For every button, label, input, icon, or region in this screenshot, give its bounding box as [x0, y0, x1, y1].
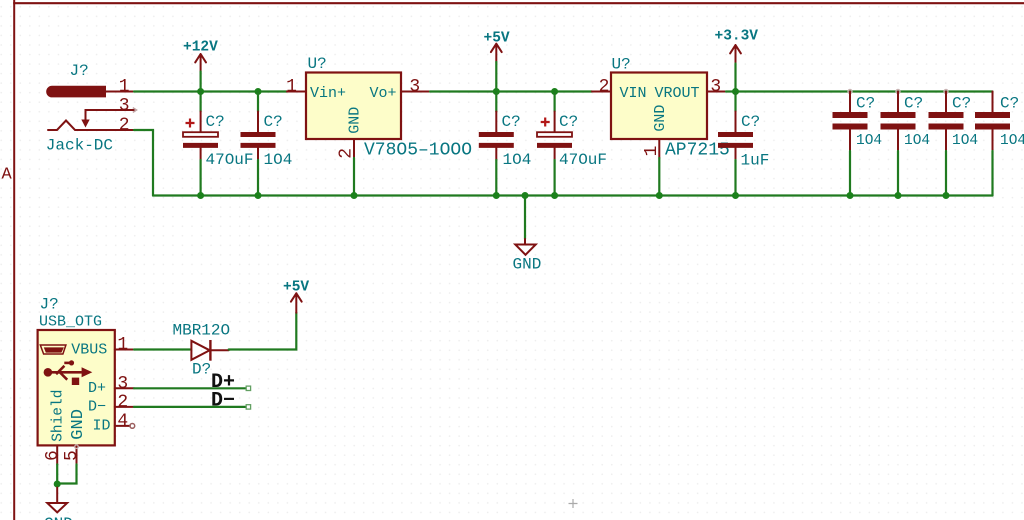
- svg-text:V78O5–1OOO: V78O5–1OOO: [364, 141, 472, 161]
- wire C4 to rail: [553, 160, 555, 196]
- svg-text:1O4: 1O4: [856, 133, 882, 149]
- power symbol +3.3V: [715, 29, 759, 64]
- svg-text:C?: C?: [1000, 95, 1019, 113]
- wire shield pin to junction: [56, 464, 58, 484]
- junction +5V node: [493, 88, 500, 95]
- svg-text:1: 1: [642, 146, 662, 157]
- svg-text:J?: J?: [40, 296, 59, 314]
- wire C7 to rail: [897, 151, 899, 196]
- junction U1 pin2 rail: [351, 192, 358, 199]
- J2 pin 4 end circle: [130, 424, 135, 429]
- power symbol +5V bottom: [283, 279, 309, 312]
- connector J1 Jack-DC barrel: [46, 86, 106, 98]
- svg-text:VBUS: VBUS: [71, 342, 107, 359]
- wire +12V to node: [200, 72, 202, 92]
- U1 pin 3: [401, 91, 430, 93]
- sheet center cross marker: [569, 499, 578, 508]
- J2 usb receptacle icon: [40, 345, 66, 354]
- svg-text:GND: GND: [652, 105, 669, 132]
- junction C1 rail: [197, 192, 204, 199]
- svg-text:D−: D−: [211, 390, 235, 413]
- J2 pin 1 VBUS: [115, 349, 134, 351]
- junction C2 rail: [255, 192, 262, 199]
- svg-text:1O4: 1O4: [264, 151, 293, 169]
- wire diode to +5V corner: [229, 313, 297, 350]
- junction C2 node: [255, 88, 262, 95]
- J2 usb trident icon: [44, 360, 93, 385]
- svg-text:C?: C?: [904, 95, 923, 113]
- capacitor C4 470uF polarized: [537, 112, 572, 161]
- svg-text:3: 3: [710, 77, 721, 97]
- junction C3 rail: [493, 192, 500, 199]
- svg-text:6: 6: [43, 450, 63, 461]
- J2 pin 5 GND: [76, 445, 78, 464]
- svg-text:GND: GND: [513, 255, 542, 273]
- D+ wire end square: [246, 386, 250, 390]
- svg-text:3: 3: [117, 374, 128, 394]
- svg-text:1: 1: [286, 77, 297, 97]
- regulator U1 body: [306, 73, 401, 140]
- svg-text:+3.3V: +3.3V: [715, 29, 759, 45]
- svg-text:3: 3: [119, 96, 130, 116]
- svg-text:Vin+: Vin+: [310, 85, 346, 102]
- power symbol +5V: [484, 31, 510, 63]
- capacitor C9 104: [975, 92, 1010, 152]
- svg-text:1O4: 1O4: [904, 133, 930, 149]
- wire D+: [134, 387, 247, 389]
- capacitor C8 104: [929, 90, 964, 152]
- svg-text:VIN: VIN: [620, 85, 647, 102]
- capacitor C3 104: [479, 112, 514, 161]
- wire jack pin2 to ground rail: [134, 130, 153, 196]
- svg-text:5: 5: [62, 450, 82, 461]
- ground symbol mid: [515, 239, 535, 255]
- TOP-CIRCUIT: [46, 29, 1024, 274]
- wire node down to C4: [553, 92, 555, 112]
- junction C8 rail: [943, 192, 950, 199]
- svg-text:47OuF: 47OuF: [206, 151, 254, 169]
- J1 pin 1: [106, 91, 134, 93]
- J2 pin 2: [115, 406, 134, 408]
- junction C7 rail: [895, 192, 902, 199]
- junction C6 rail: [847, 192, 854, 199]
- junction +3.3V node: [732, 88, 739, 95]
- U1 pin 1: [287, 91, 306, 93]
- wire D-: [134, 406, 247, 408]
- J1 pin 3 end circle: [133, 108, 137, 113]
- capacitor C5 1uF: [718, 112, 753, 161]
- svg-text:GND: GND: [347, 107, 364, 134]
- wire node down to C1: [200, 92, 202, 112]
- wire GND stem: [524, 196, 526, 240]
- svg-text:GND: GND: [69, 409, 88, 440]
- svg-text:D?: D?: [192, 361, 211, 379]
- wire C9 to rail: [991, 151, 993, 196]
- svg-text:U?: U?: [308, 55, 327, 73]
- wire C6 to rail: [849, 151, 851, 196]
- wire U1 pin2 to rail: [353, 158, 355, 196]
- svg-text:2: 2: [119, 116, 130, 136]
- svg-text:4: 4: [117, 411, 128, 431]
- svg-text:MBR12O: MBR12O: [173, 322, 231, 340]
- svg-text:Shield: Shield: [51, 390, 67, 442]
- wire C8 to rail: [945, 151, 947, 196]
- junction GND stem rail: [522, 192, 529, 199]
- J2 pin 5 end circle: [75, 445, 79, 449]
- wire jack pin1 to U1: [134, 90, 287, 92]
- wire C3 to rail: [495, 160, 497, 196]
- wire gnd pin L to junction: [57, 464, 76, 483]
- svg-text:1: 1: [119, 77, 130, 97]
- junction +12V node: [197, 88, 204, 95]
- svg-text:D−: D−: [88, 399, 106, 416]
- sheet frame top horizontal line: [13, 2, 1024, 4]
- J2 pin 6 Shield: [56, 445, 58, 464]
- U2 pin 1: [658, 139, 660, 158]
- svg-text:1O4: 1O4: [503, 151, 532, 169]
- wire U1 out to U2: [430, 90, 592, 92]
- wire U2 out to right: [726, 90, 993, 92]
- capacitor C6 104: [833, 90, 868, 152]
- svg-text:1O4: 1O4: [1000, 133, 1024, 149]
- wire node down to C3: [495, 92, 497, 112]
- svg-text:VROUT: VROUT: [655, 85, 700, 102]
- svg-text:1uF: 1uF: [741, 152, 770, 170]
- J1 pin 3 with switch arrow: [86, 110, 135, 121]
- capacitor C2 104: [241, 112, 276, 161]
- J1 pin 2 switch contact zigzag: [48, 121, 134, 131]
- junction C4 rail: [551, 192, 558, 199]
- svg-text:C?: C?: [264, 113, 283, 131]
- svg-text:1O4: 1O4: [952, 133, 978, 149]
- junction U2 pin1 rail: [656, 192, 663, 199]
- svg-text:ID: ID: [93, 418, 111, 435]
- regulator U2 body: [611, 73, 707, 140]
- wire C5 to rail: [734, 160, 736, 196]
- svg-text:Jack-DC: Jack-DC: [46, 137, 113, 155]
- svg-text:1: 1: [117, 335, 128, 355]
- svg-text:U?: U?: [612, 56, 631, 74]
- svg-text:J?: J?: [70, 62, 89, 80]
- junction usb ground: [54, 481, 61, 488]
- sheet frame left vertical line: [13, 0, 15, 520]
- wire C2 to rail: [257, 160, 259, 196]
- svg-text:C?: C?: [741, 113, 760, 131]
- svg-text:A: A: [1, 165, 12, 184]
- wire C1 to rail: [200, 160, 202, 196]
- svg-text:47OuF: 47OuF: [559, 151, 607, 169]
- svg-text:GND: GND: [44, 515, 73, 520]
- wire node down to C2: [257, 92, 259, 112]
- ground symbol usb: [47, 488, 67, 513]
- capacitor C7 104: [881, 90, 916, 152]
- svg-text:2: 2: [117, 392, 128, 412]
- U1 pin 2: [353, 139, 355, 158]
- junction C4 node: [551, 88, 558, 95]
- junction C5 rail: [732, 192, 739, 199]
- svg-text:USB_OTG: USB_OTG: [39, 314, 102, 331]
- wire node down to C5: [734, 92, 736, 112]
- D- wire end square: [246, 405, 250, 409]
- power symbol +12V: [183, 40, 218, 72]
- wire VBUS to diode: [134, 348, 190, 350]
- ground rail wire: [153, 194, 993, 196]
- J2 pin 3: [115, 387, 134, 389]
- svg-text:C?: C?: [502, 113, 521, 131]
- J2 pin 4 ID stub: [115, 425, 130, 427]
- U2 pin 2: [592, 91, 611, 93]
- wire +3.3V to node: [734, 64, 736, 92]
- svg-text:C?: C?: [206, 113, 225, 131]
- svg-text:Vo+: Vo+: [370, 85, 397, 102]
- svg-text:C?: C?: [856, 95, 875, 113]
- svg-text:C?: C?: [559, 113, 578, 131]
- capacitor C1 470uF polarized: [183, 112, 218, 161]
- connector J2 USB_OTG body: [38, 330, 115, 445]
- wire U2 pin1 to rail: [658, 158, 660, 196]
- diode D1 MBR120: [191, 340, 228, 361]
- svg-text:3: 3: [409, 77, 420, 97]
- U2 pin 3: [707, 91, 726, 93]
- wire +5V to node: [495, 62, 497, 92]
- svg-text:2: 2: [599, 77, 610, 97]
- svg-text:D+: D+: [88, 380, 106, 397]
- svg-text:C?: C?: [952, 95, 971, 113]
- BOTTOM-CIRCUIT: [38, 279, 578, 520]
